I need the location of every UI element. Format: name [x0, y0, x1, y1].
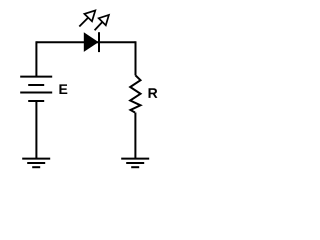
resistor R zigzag — [130, 75, 140, 112]
label E — [59, 84, 67, 94]
battery E plate 4 (short) — [28, 100, 44, 102]
LED light arrow 2 shaft — [95, 22, 103, 30]
LED light arrow 1 head — [84, 10, 95, 21]
LED light arrow 2 head — [99, 15, 109, 25]
wire resistor to right ground — [134, 113, 136, 159]
wire top horizontal — [36, 41, 135, 43]
battery E plate 1 (long) — [20, 76, 52, 78]
LED anode triangle — [84, 32, 99, 52]
label R — [149, 88, 158, 98]
wire right vertical (top corner to resistor) — [135, 41, 137, 75]
LED cathode bar — [98, 32, 100, 52]
ground right — [121, 159, 149, 168]
battery E plate 2 (short) — [28, 84, 44, 86]
battery E plate 3 (long) — [20, 92, 52, 94]
wire battery to left ground — [35, 101, 37, 159]
ground left — [22, 159, 50, 168]
wire left vertical (top corner to battery) — [35, 41, 37, 76]
LED light arrow 1 shaft — [79, 18, 88, 27]
